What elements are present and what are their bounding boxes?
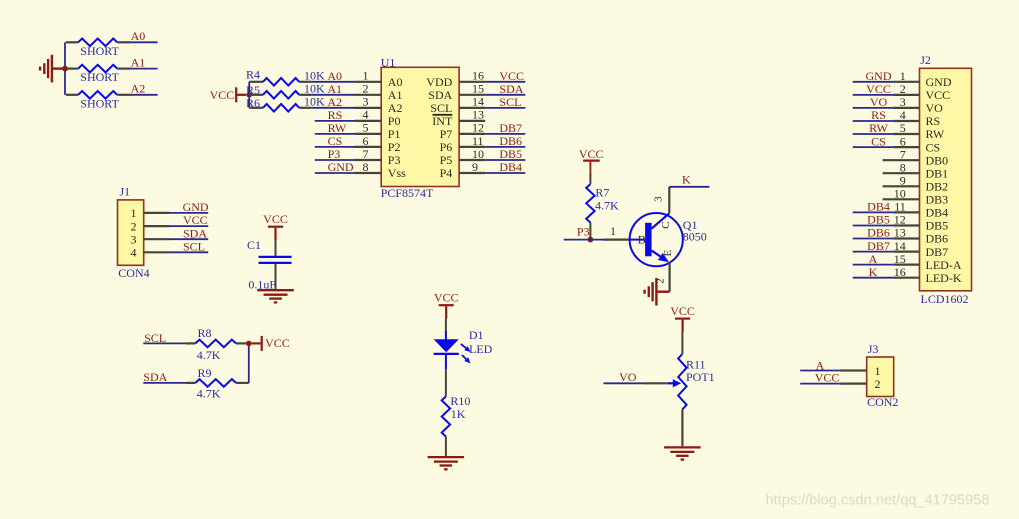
svg-text:R9: R9 (198, 366, 212, 380)
svg-text:P2: P2 (388, 140, 401, 154)
svg-text:LED-A: LED-A (926, 258, 962, 272)
svg-text:2: 2 (875, 377, 881, 391)
svg-text:4: 4 (363, 108, 369, 122)
svg-text:PCF8574T: PCF8574T (381, 186, 434, 200)
svg-text:A: A (869, 252, 878, 266)
svg-text:16: 16 (894, 265, 906, 279)
svg-text:3: 3 (900, 95, 906, 109)
svg-text:5: 5 (900, 121, 906, 135)
svg-text:Vss: Vss (388, 166, 406, 180)
svg-text:VDD: VDD (426, 75, 452, 89)
svg-text:P3: P3 (388, 153, 401, 167)
svg-text:14: 14 (472, 95, 484, 109)
svg-text:DB6: DB6 (499, 134, 522, 148)
svg-text:P4: P4 (440, 166, 453, 180)
svg-text:3: 3 (652, 196, 664, 202)
svg-text:11: 11 (472, 134, 484, 148)
svg-text:GND: GND (926, 75, 952, 89)
svg-text:7: 7 (900, 147, 906, 161)
svg-text:VCC: VCC (263, 212, 288, 226)
svg-text:4.7K: 4.7K (197, 348, 221, 362)
svg-text:J2: J2 (920, 53, 931, 67)
svg-text:P3: P3 (328, 147, 341, 161)
svg-text:DB7: DB7 (867, 239, 890, 253)
svg-text:LCD1602: LCD1602 (921, 292, 969, 306)
svg-text:3: 3 (363, 95, 369, 109)
svg-text:VCC: VCC (265, 336, 290, 350)
svg-text:4.7K: 4.7K (595, 199, 619, 213)
svg-text:CON2: CON2 (867, 395, 898, 409)
svg-text:VCC: VCC (579, 147, 604, 161)
svg-text:VCC: VCC (670, 304, 695, 318)
svg-text:DB1: DB1 (926, 166, 949, 180)
svg-text:GND: GND (866, 69, 892, 83)
svg-text:P5: P5 (440, 153, 453, 167)
svg-text:0.1uF: 0.1uF (248, 277, 276, 291)
svg-text:SDA: SDA (143, 370, 167, 384)
svg-text:13: 13 (894, 226, 906, 240)
svg-text:2: 2 (363, 82, 369, 96)
svg-text:P7: P7 (440, 127, 453, 141)
svg-text:11: 11 (894, 200, 906, 214)
svg-text:A0: A0 (388, 75, 403, 89)
svg-text:10: 10 (894, 187, 906, 201)
svg-text:VCC: VCC (210, 88, 235, 102)
svg-text:A0: A0 (327, 69, 342, 83)
svg-text:P0: P0 (388, 114, 401, 128)
svg-text:DB4: DB4 (867, 200, 890, 214)
svg-text:VO: VO (619, 370, 637, 384)
svg-text:SHORT: SHORT (80, 44, 119, 58)
svg-text:VO: VO (870, 95, 888, 109)
svg-text:R4: R4 (246, 67, 260, 81)
svg-text:7: 7 (363, 147, 369, 161)
svg-text:U1: U1 (381, 55, 396, 69)
svg-text:RW: RW (869, 121, 888, 135)
svg-text:3: 3 (131, 233, 137, 247)
svg-text:A1: A1 (327, 82, 342, 96)
svg-text:CS: CS (328, 134, 343, 148)
svg-text:SCL: SCL (499, 95, 521, 109)
svg-text:RW: RW (328, 121, 347, 135)
svg-text:SHORT: SHORT (80, 96, 119, 110)
svg-text:P1: P1 (388, 127, 401, 141)
svg-text:A0: A0 (131, 29, 146, 43)
svg-text:VCC: VCC (866, 82, 891, 96)
svg-text:VCC: VCC (183, 213, 208, 227)
svg-text:1: 1 (875, 364, 881, 378)
svg-text:8050: 8050 (683, 229, 707, 243)
svg-text:1: 1 (363, 69, 369, 83)
svg-text:LED-K: LED-K (926, 271, 962, 285)
svg-text:A2: A2 (388, 101, 403, 115)
svg-text:15: 15 (894, 252, 906, 266)
svg-text:A2: A2 (327, 95, 342, 109)
svg-text:https://blog.csdn.net/qq_41795: https://blog.csdn.net/qq_41795958 (766, 492, 990, 508)
svg-text:4: 4 (131, 246, 137, 260)
svg-text:C: C (660, 221, 672, 228)
svg-text:8: 8 (363, 160, 369, 174)
svg-text:SDA: SDA (499, 82, 523, 96)
svg-text:VCC: VCC (815, 370, 840, 384)
svg-text:CS: CS (926, 140, 941, 154)
svg-text:13: 13 (472, 108, 484, 122)
svg-text:6: 6 (363, 134, 369, 148)
svg-text:10K: 10K (304, 69, 325, 83)
svg-text:DB2: DB2 (926, 180, 949, 194)
svg-text:1K: 1K (451, 407, 466, 421)
svg-text:DB0: DB0 (926, 153, 949, 167)
svg-text:8: 8 (900, 160, 906, 174)
svg-text:12: 12 (472, 121, 484, 135)
svg-text:6: 6 (900, 134, 906, 148)
svg-text:P6: P6 (440, 140, 453, 154)
svg-text:15: 15 (472, 82, 484, 96)
svg-text:D1: D1 (469, 328, 484, 342)
svg-text:DB6: DB6 (867, 226, 890, 240)
svg-text:12: 12 (894, 213, 906, 227)
svg-text:J1: J1 (120, 184, 131, 198)
svg-text:E: E (662, 249, 674, 256)
svg-text:R7: R7 (595, 186, 609, 200)
svg-text:4.7K: 4.7K (197, 387, 221, 401)
svg-text:SDA: SDA (183, 226, 207, 240)
svg-text:LED: LED (469, 342, 493, 356)
svg-text:R8: R8 (198, 326, 212, 340)
svg-text:GND: GND (328, 160, 354, 174)
svg-text:R6: R6 (246, 96, 260, 110)
svg-text:DB7: DB7 (499, 121, 522, 135)
svg-text:J3: J3 (868, 342, 879, 356)
svg-text:POT1: POT1 (686, 370, 715, 384)
svg-text:A2: A2 (131, 82, 146, 96)
svg-text:DB5: DB5 (867, 213, 890, 227)
svg-text:INT: INT (432, 114, 453, 128)
svg-text:SHORT: SHORT (80, 70, 119, 84)
svg-text:CON4: CON4 (118, 266, 149, 280)
svg-text:VCC: VCC (926, 88, 951, 102)
svg-text:4: 4 (900, 108, 906, 122)
svg-text:2: 2 (131, 219, 137, 233)
svg-text:2: 2 (654, 278, 666, 284)
svg-text:P3: P3 (577, 224, 590, 238)
svg-text:9: 9 (900, 174, 906, 188)
svg-text:DB4: DB4 (926, 206, 949, 220)
svg-text:DB3: DB3 (926, 193, 949, 207)
svg-text:DB5: DB5 (499, 147, 522, 161)
svg-text:RS: RS (871, 108, 886, 122)
svg-text:VCC: VCC (434, 291, 459, 305)
svg-text:GND: GND (183, 200, 209, 214)
svg-text:SCL: SCL (144, 331, 166, 345)
svg-text:1: 1 (900, 69, 906, 83)
svg-text:9: 9 (472, 160, 478, 174)
svg-text:A1: A1 (131, 55, 146, 69)
svg-text:B: B (638, 232, 646, 246)
svg-text:CS: CS (871, 134, 886, 148)
svg-text:K: K (682, 173, 691, 187)
svg-text:DB6: DB6 (926, 232, 949, 246)
svg-text:VCC: VCC (499, 69, 524, 83)
svg-text:16: 16 (472, 69, 484, 83)
svg-text:1: 1 (610, 224, 616, 238)
svg-text:10: 10 (472, 147, 484, 161)
svg-text:2: 2 (900, 82, 906, 96)
svg-text:RS: RS (926, 114, 941, 128)
svg-text:10K: 10K (304, 82, 325, 96)
svg-text:DB5: DB5 (926, 219, 949, 233)
svg-text:VO: VO (926, 101, 944, 115)
svg-text:A1: A1 (388, 88, 403, 102)
svg-text:RW: RW (926, 127, 945, 141)
svg-text:K: K (869, 265, 878, 279)
svg-text:10K: 10K (304, 95, 325, 109)
svg-text:14: 14 (894, 239, 906, 253)
svg-text:DB7: DB7 (926, 245, 949, 259)
svg-text:R5: R5 (246, 83, 260, 97)
svg-text:DB4: DB4 (499, 160, 522, 174)
svg-text:R10: R10 (450, 394, 470, 408)
svg-text:1: 1 (131, 206, 137, 220)
svg-text:C1: C1 (247, 238, 261, 252)
svg-text:SDA: SDA (428, 88, 452, 102)
svg-text:SCL: SCL (183, 240, 205, 254)
svg-text:RS: RS (328, 108, 343, 122)
svg-text:5: 5 (363, 121, 369, 135)
svg-text:SCL: SCL (430, 101, 452, 115)
